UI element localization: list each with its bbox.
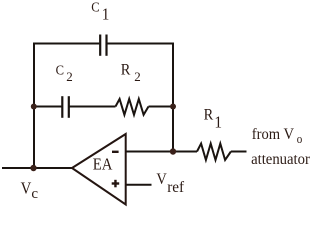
svg-text:C: C <box>56 62 65 78</box>
svg-text:2: 2 <box>134 69 141 84</box>
op-amp inverting (minus) sign <box>112 151 119 153</box>
wire: feedback loop top-left (node OUT up and across to C1) <box>34 44 99 169</box>
svg-text:o: o <box>297 131 303 146</box>
resistor R2 <box>116 99 149 115</box>
op-amp EA triangle <box>72 134 126 205</box>
svg-text:attenuator: attenuator <box>251 150 310 168</box>
wire: R1 right lead to attenuator <box>231 151 247 153</box>
wire: R2 to node INV vertical <box>149 106 174 108</box>
op-amp non-inverting (plus) sign <box>112 180 120 188</box>
svg-text:from V: from V <box>252 125 294 143</box>
svg-text:1: 1 <box>214 114 222 132</box>
wire: output to Vc (left) <box>2 167 73 169</box>
wire: C2 right plate to R2 <box>70 106 116 108</box>
svg-text:2: 2 <box>66 69 73 84</box>
svg-text:R: R <box>121 61 131 79</box>
wire: C1 right plate to node INV (top-right corner down) <box>107 44 173 152</box>
wire: inverting input to node N1 <box>126 151 197 153</box>
svg-text:C: C <box>91 0 100 15</box>
junction node INV at R1 <box>170 148 176 154</box>
capacitor C1 <box>100 35 106 56</box>
svg-text:c: c <box>31 186 38 202</box>
svg-text:V: V <box>21 180 32 198</box>
svg-text:R: R <box>204 106 214 124</box>
junction node INV at R2 <box>170 104 176 110</box>
svg-text:EA: EA <box>93 156 113 174</box>
resistor R1 <box>197 144 231 160</box>
junction node at OUT/C2 tap <box>31 104 37 110</box>
wire: non-inverting input lead <box>126 184 152 186</box>
junction node at Vc output <box>30 165 36 171</box>
svg-text:V: V <box>156 171 166 189</box>
svg-text:1: 1 <box>102 6 110 24</box>
wire: node OUT to C2 left plate <box>34 106 62 108</box>
svg-text:ref: ref <box>167 179 185 196</box>
capacitor C2 <box>62 96 69 118</box>
